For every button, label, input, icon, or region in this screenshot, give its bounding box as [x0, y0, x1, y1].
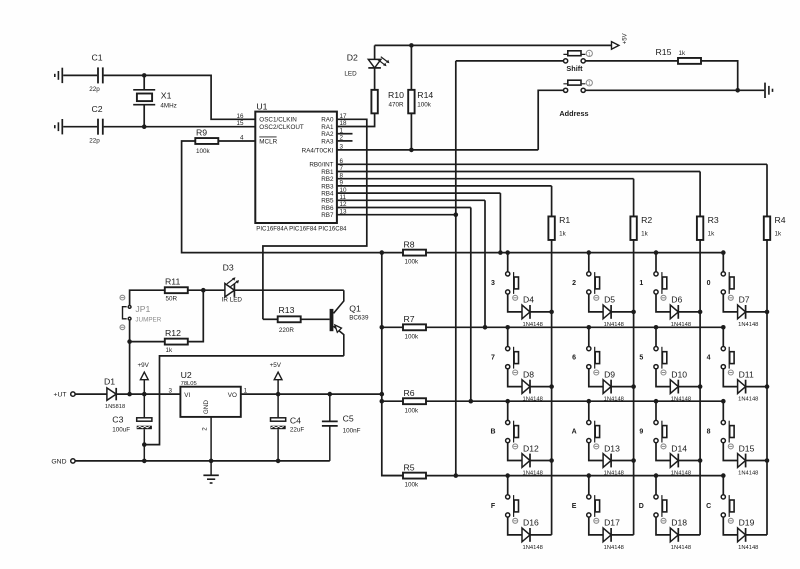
node column 2 / D5: [631, 310, 636, 315]
wire button 8 to diode D15: [723, 443, 737, 461]
wire RB6: [337, 207, 471, 209]
pin stub RA2: [337, 133, 353, 135]
svg-text:D6: D6: [671, 295, 682, 305]
wire row 3 left: [382, 400, 403, 402]
svg-text:1N4148: 1N4148: [738, 397, 758, 403]
svg-text:D11: D11: [739, 369, 754, 379]
svg-text:+UT: +UT: [53, 392, 66, 399]
svg-text:+9V: +9V: [138, 362, 150, 369]
wire R4 top feed: [766, 164, 768, 216]
wire D12 to column: [530, 460, 552, 462]
wire button D to diode D18: [656, 517, 670, 535]
svg-text:1N4148: 1N4148: [738, 545, 758, 551]
svg-text:3: 3: [491, 280, 495, 287]
push button key 9: [654, 420, 658, 424]
node row 2 key 5: [654, 325, 659, 330]
node column 4 / D7: [765, 310, 770, 315]
svg-text:1N4148: 1N4148: [523, 322, 543, 328]
svg-text:Q1: Q1: [349, 303, 361, 313]
wire button A to diode D13: [589, 443, 603, 461]
svg-text:16: 16: [236, 113, 244, 120]
svg-text:1N5818: 1N5818: [105, 404, 125, 410]
push button key A: [587, 420, 591, 424]
svg-text:R2: R2: [641, 215, 652, 225]
svg-text:R10: R10: [388, 90, 404, 100]
svg-text:RB7: RB7: [321, 212, 334, 219]
wire Address left to RA4: [538, 90, 563, 150]
wire R1 top feed: [551, 186, 553, 217]
svg-text:22p: 22p: [89, 86, 100, 93]
node row 1 key 1: [654, 250, 659, 255]
wire row 2 left: [382, 326, 403, 328]
svg-text:1N4148: 1N4148: [523, 397, 543, 403]
node +5V rail / row 2: [380, 325, 385, 330]
wire U2 pin2 to ground: [210, 417, 212, 475]
push button key C: [721, 495, 725, 499]
node row 3 key B: [505, 399, 510, 404]
svg-text:R6: R6: [404, 388, 415, 398]
svg-text:1N4148: 1N4148: [604, 397, 624, 403]
svg-text:R11: R11: [165, 277, 180, 287]
node column 2 / D13: [631, 458, 636, 463]
push button key 4: [721, 347, 725, 351]
svg-text:LED: LED: [344, 70, 357, 77]
wire RB3: [337, 185, 552, 187]
svg-text:E: E: [572, 503, 577, 510]
svg-text:R7: R7: [404, 314, 415, 324]
wire R14 top: [410, 45, 412, 90]
resistor R5 100k: [403, 473, 426, 479]
svg-text:1N4148: 1N4148: [523, 470, 543, 476]
svg-text:RA2: RA2: [321, 131, 334, 138]
svg-text:1N4148: 1N4148: [671, 470, 691, 476]
resistor R3 1k: [697, 216, 703, 240]
wire button F top: [507, 476, 509, 495]
node R15/Address: [735, 88, 740, 93]
wire row 4 left: [382, 475, 403, 477]
svg-text:1N4148: 1N4148: [738, 322, 758, 328]
node row 4 key E: [587, 473, 592, 478]
svg-text:6: 6: [572, 355, 576, 362]
svg-text:RB5: RB5: [321, 198, 334, 205]
node U2 pin2/GND rail: [209, 459, 214, 464]
wire button 4 to diode D11: [723, 369, 737, 387]
svg-text:OSC1/CLKIN: OSC1/CLKIN: [259, 117, 297, 124]
node row 4 key C: [721, 473, 726, 478]
node JP1 rail: [127, 392, 132, 397]
wire button 2 to diode D5: [589, 294, 603, 312]
svg-text:D8: D8: [523, 369, 534, 379]
wire D4 to column: [530, 311, 552, 313]
svg-text:RB2: RB2: [321, 176, 334, 183]
node R14/RA4: [409, 148, 414, 153]
svg-text:1N4148: 1N4148: [671, 545, 691, 551]
wire JP1 bottom to R12 and +9V rail: [129, 320, 131, 394]
svg-text:R8: R8: [404, 240, 415, 250]
transistor Q1 BC639: [330, 309, 334, 331]
svg-text:R13: R13: [279, 305, 295, 315]
svg-text:1: 1: [639, 280, 643, 287]
wire button 0 top: [722, 253, 724, 272]
wire MCLR to R9: [218, 140, 255, 142]
wire row 4: [426, 475, 723, 477]
node VO/+5V keypad rail: [380, 392, 385, 397]
wire Shift left to RB7 column: [456, 60, 564, 62]
wire button 7 to diode D8: [508, 369, 522, 387]
wire row 2: [426, 326, 723, 328]
wire column R2: [633, 240, 635, 535]
node row 4 key F: [505, 473, 510, 478]
svg-text:22p: 22p: [89, 138, 100, 145]
node column 4 / D11: [765, 384, 770, 389]
node row 3 key A: [587, 399, 592, 404]
ground (left of C2): [61, 119, 63, 134]
diode D12 1N4148: [522, 454, 530, 468]
node: C2/X1 junction: [142, 124, 147, 129]
svg-text:R5: R5: [404, 463, 415, 473]
svg-text:D: D: [639, 503, 644, 510]
wire button 4 top: [722, 327, 724, 346]
diode D8 1N4148: [522, 380, 530, 394]
wire R11 to D3: [188, 289, 225, 291]
resistor R4 1k: [764, 216, 770, 240]
svg-text:X1: X1: [161, 91, 172, 101]
svg-text:1: 1: [588, 52, 591, 58]
push button key 5: [654, 347, 658, 351]
wire button A top: [588, 401, 590, 420]
wire button B to diode D12: [508, 443, 522, 461]
wire column R3: [699, 240, 701, 535]
svg-text:100k: 100k: [417, 102, 432, 109]
wire RB2: [337, 178, 634, 180]
node +9V/C3: [142, 392, 147, 397]
node column 4 / D15: [765, 458, 770, 463]
diode D7 1N4148: [738, 305, 746, 319]
wire RA0 to R13 net: [263, 119, 367, 319]
wire +5V vertical rail (left of keypad): [382, 253, 403, 476]
wire RB6 feed to row 3: [470, 208, 472, 402]
svg-text:C2: C2: [92, 104, 103, 114]
ground (left of C1): [61, 68, 63, 83]
node C3/GND rail: [142, 459, 147, 464]
node row 3 key 9: [654, 399, 659, 404]
wire D17 to column: [611, 534, 634, 536]
svg-text:D2: D2: [347, 52, 358, 62]
svg-text:GND: GND: [51, 459, 66, 466]
wire +5V rail: [375, 44, 612, 46]
regulator U2 78L05: [180, 387, 240, 417]
node C3/emitter return: [142, 442, 147, 447]
svg-text:RA3: RA3: [321, 138, 334, 145]
svg-text:C: C: [706, 503, 711, 510]
node +5V rail / row 3: [380, 399, 385, 404]
resistor R15 1k: [678, 58, 701, 64]
wire button 7 top: [507, 327, 509, 346]
diode D15 1N4148: [738, 454, 746, 468]
node row 1 key 2: [587, 250, 592, 255]
svg-text:D7: D7: [739, 295, 750, 305]
node row 1 key 0: [721, 250, 726, 255]
wire column R4: [766, 240, 768, 535]
svg-text:D19: D19: [739, 518, 755, 528]
push button key 2: [587, 272, 591, 276]
node row 3 key 8: [721, 399, 726, 404]
wire RA4/T0CKI line: [337, 149, 538, 151]
svg-text:R14: R14: [417, 90, 433, 100]
node column 3 / D6: [698, 310, 703, 315]
wire D16 to column: [530, 534, 552, 536]
diode D4 1N4148: [522, 305, 530, 319]
push button Shift: [564, 59, 568, 63]
LED D2: [374, 45, 376, 59]
svg-text:RA1: RA1: [321, 124, 334, 131]
svg-text:1N4148: 1N4148: [604, 545, 624, 551]
svg-text:D16: D16: [523, 518, 539, 528]
svg-text:U2: U2: [181, 370, 192, 380]
wire R3 top feed: [699, 172, 701, 217]
wire R14 bottom to RA4: [410, 113, 412, 150]
wire D15 to column: [746, 460, 767, 462]
svg-text:100k: 100k: [405, 333, 420, 340]
node column 2 / D9: [631, 384, 636, 389]
resistor R1 1k: [548, 216, 554, 240]
svg-text:1N4148: 1N4148: [523, 545, 543, 551]
diode D13 1N4148: [603, 454, 611, 468]
resistor R12 1k: [165, 339, 188, 345]
node row 2 key 7: [505, 325, 510, 330]
svg-text:7: 7: [491, 355, 495, 362]
capacitor C1: [97, 67, 99, 83]
svg-text:C1: C1: [92, 53, 103, 63]
diode D18 1N4148: [670, 528, 678, 542]
svg-text:D1: D1: [104, 376, 115, 386]
node JP1/R12: [127, 339, 132, 344]
push button key 0: [721, 272, 725, 276]
node column 3 / D14: [698, 458, 703, 463]
wire: [63, 74, 97, 76]
svg-text:RB4: RB4: [321, 191, 334, 198]
svg-text:JUMPER: JUMPER: [135, 316, 161, 323]
push button key F: [506, 495, 510, 499]
ground (right of Address): [764, 83, 766, 98]
wire RB5: [337, 199, 485, 201]
svg-text:C4: C4: [290, 415, 301, 425]
svg-text:100k: 100k: [196, 148, 211, 155]
diode D16 1N4148: [522, 528, 530, 542]
wire D3 to Q1 collector: [234, 289, 343, 291]
svg-text:R9: R9: [196, 128, 207, 138]
svg-text:R4: R4: [775, 215, 786, 225]
wire button E top: [588, 476, 590, 495]
wire button C to diode D19: [723, 517, 737, 535]
svg-text:D5: D5: [604, 295, 615, 305]
diode D17 1N4148: [603, 528, 611, 542]
node row 2 key 4: [721, 325, 726, 330]
wire button 9 to diode D14: [656, 443, 670, 461]
wire row 3: [426, 400, 723, 402]
wire R12 to R11 junction: [188, 290, 204, 341]
crystal X1 4MHz: [143, 75, 145, 89]
wire D18 to column: [678, 534, 700, 536]
wire button 0 to diode D7: [723, 294, 737, 312]
wire button 2 top: [588, 253, 590, 272]
wire VO rail: [241, 393, 382, 395]
svg-text:VO: VO: [228, 392, 237, 399]
svg-text:F: F: [491, 503, 496, 510]
node column 3 / D10: [698, 384, 703, 389]
svg-text:VI: VI: [184, 392, 190, 399]
wire RB1: [337, 171, 700, 173]
svg-text:0: 0: [707, 280, 711, 287]
wire D19 to column: [746, 534, 767, 536]
svg-text:100uF: 100uF: [112, 426, 130, 433]
svg-text:D9: D9: [604, 369, 615, 379]
svg-text:RB6: RB6: [321, 205, 334, 212]
svg-text:B: B: [490, 428, 495, 435]
svg-text:220R: 220R: [279, 327, 295, 334]
svg-text:2: 2: [202, 427, 209, 431]
wire RB4: [337, 192, 501, 194]
svg-text:RA4/T0CKI: RA4/T0CKI: [302, 147, 334, 154]
wire R15 to Address net: [701, 61, 738, 90]
jumper JP1: [128, 306, 131, 309]
wire Shift/RB7 feed to row 4: [455, 61, 457, 476]
svg-text:D13: D13: [604, 443, 620, 453]
push button key D: [654, 495, 658, 499]
svg-text:PIC16F84A PIC16F84 PIC16C84: PIC16F84A PIC16F84 PIC16C84: [256, 226, 347, 233]
wire button 6 to diode D9: [589, 369, 603, 387]
svg-text:50R: 50R: [166, 295, 178, 302]
svg-text:D14: D14: [671, 443, 687, 453]
svg-text:OSC2/CLKOUT: OSC2/CLKOUT: [259, 124, 304, 131]
wire button B top: [507, 401, 509, 420]
node column 1 / D8: [549, 384, 554, 389]
wire column R1: [551, 240, 553, 535]
wire D1 to U2 VI: [116, 393, 180, 395]
wire button 1 to diode D6: [656, 294, 670, 312]
svg-text:Shift: Shift: [566, 64, 583, 73]
svg-text:1k: 1k: [679, 50, 687, 57]
power arrow +5V: [612, 42, 619, 50]
node row 2 key 6: [587, 325, 592, 330]
wire: [63, 126, 97, 128]
svg-text:+5V: +5V: [623, 33, 629, 44]
svg-text:22uF: 22uF: [290, 426, 305, 433]
svg-text:100nF: 100nF: [343, 428, 361, 435]
resistor R10 470R: [371, 90, 377, 114]
push button key 3: [506, 272, 510, 276]
svg-text:1k: 1k: [708, 231, 716, 238]
diode D11 1N4148: [738, 380, 746, 394]
wire D10 to column: [678, 386, 700, 388]
svg-text:4: 4: [707, 355, 711, 362]
wire button 3 top: [507, 253, 509, 272]
svg-text:D10: D10: [671, 369, 687, 379]
wire button 6 top: [588, 327, 590, 346]
wire row 1: [426, 252, 723, 254]
svg-text:1: 1: [588, 81, 591, 87]
svg-text:D12: D12: [523, 443, 539, 453]
svg-text:8: 8: [707, 428, 711, 435]
push button key E: [587, 495, 591, 499]
svg-text:1k: 1k: [641, 231, 649, 238]
resistor R9 100k: [195, 138, 218, 144]
wire GND rail: [75, 460, 330, 462]
wire RB5 feed to row 2: [484, 200, 486, 327]
resistor R14 100k: [408, 90, 414, 114]
wire D11 to column: [746, 386, 767, 388]
wire button E to diode D17: [589, 517, 603, 535]
svg-text:1N4148: 1N4148: [671, 322, 691, 328]
diode D10 1N4148: [670, 380, 678, 394]
wire Q1 emitter to ground: [144, 356, 343, 445]
wire R10 to RA1: [337, 113, 375, 126]
svg-text:JP1: JP1: [135, 304, 150, 314]
wire D2 to R10: [374, 68, 376, 90]
node C5 top: [328, 392, 333, 397]
wire R13 to Q1 base: [301, 318, 330, 320]
IR LED D3: [225, 284, 235, 297]
diode D5 1N4148: [603, 305, 611, 319]
svg-text:Address: Address: [559, 109, 588, 118]
wire button 5 top: [655, 327, 657, 346]
svg-text:1k: 1k: [166, 347, 174, 354]
wire RB4 feed to row 1: [499, 193, 501, 253]
svg-text:100k: 100k: [405, 482, 420, 489]
push button key 7: [506, 347, 510, 351]
diode D19 1N4148: [738, 528, 746, 542]
svg-text:1k: 1k: [775, 231, 783, 238]
capacitor C5 100nF: [329, 394, 331, 421]
push button key 8: [721, 420, 725, 424]
svg-text:D4: D4: [523, 295, 534, 305]
svg-text:C3: C3: [112, 415, 123, 425]
resistor R11 50R: [165, 287, 188, 293]
wire D7 to column: [746, 311, 767, 313]
wire R2 top feed: [633, 179, 635, 217]
wire JP1 top to R11: [130, 290, 165, 305]
power arrow +9V: [143, 380, 145, 394]
ground (below U2): [203, 474, 218, 476]
svg-text:R12: R12: [165, 328, 181, 338]
node C4: [276, 392, 281, 397]
wire button 3 to diode D4: [508, 294, 522, 312]
wire D8 to column: [530, 386, 552, 388]
wire C1 to OSC1: [104, 75, 256, 119]
svg-text:D15: D15: [739, 443, 755, 453]
wire C2 to OSC2: [104, 126, 256, 128]
wire Address to ground: [585, 89, 764, 91]
svg-text:1N4148: 1N4148: [604, 470, 624, 476]
resistor R2 1k: [630, 216, 636, 240]
wire Shift to R15: [585, 60, 678, 62]
capacitor C4 22uF: [277, 394, 279, 418]
wire button D top: [655, 476, 657, 495]
resistor R7 100k: [403, 324, 426, 330]
push button key B: [506, 420, 510, 424]
svg-text:1N4148: 1N4148: [738, 470, 758, 476]
svg-text:100k: 100k: [405, 407, 420, 414]
svg-text:RA0: RA0: [321, 117, 334, 124]
node R14 top: [409, 43, 414, 48]
resistor R13 220R: [263, 318, 278, 320]
wire D13 to column: [611, 460, 634, 462]
svg-text:MCLR: MCLR: [259, 138, 277, 145]
node column 1 / D12: [549, 458, 554, 463]
wire R9 left down to keypad row 1 rail: [182, 141, 404, 253]
power arrow +5V (rail): [277, 380, 279, 394]
svg-text:9: 9: [639, 428, 643, 435]
